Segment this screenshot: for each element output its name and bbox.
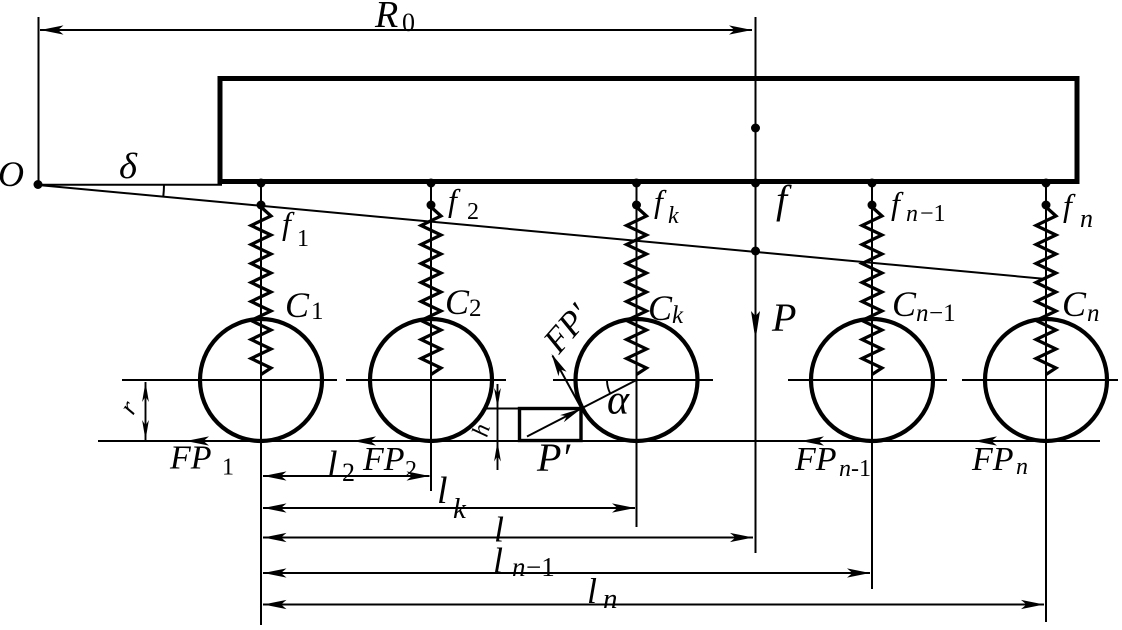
dimension ln-1 right arrowhead xyxy=(847,568,870,577)
block P prime xyxy=(520,409,582,441)
dimension l2 right arrowhead xyxy=(407,471,430,480)
svg-text:FP: FP xyxy=(971,441,1014,478)
dimension lk line xyxy=(263,507,635,509)
arrow FPn xyxy=(974,436,997,445)
spring Cn xyxy=(1036,207,1056,375)
svg-text:C: C xyxy=(1062,284,1087,324)
lower dot spring 1 xyxy=(257,201,266,210)
svg-text:−1: −1 xyxy=(929,300,956,327)
svg-text:l: l xyxy=(327,444,338,486)
beam rectangle xyxy=(220,79,1077,182)
spring Cn1 xyxy=(862,207,882,375)
force P line xyxy=(755,17,757,553)
block top extension line xyxy=(486,408,520,410)
svg-text:2: 2 xyxy=(469,295,482,322)
dot on P line at beam xyxy=(751,179,760,188)
dimension l line xyxy=(263,537,753,539)
dimension ln line xyxy=(263,604,1044,606)
roller circle C2 xyxy=(370,319,492,441)
spring C1 xyxy=(251,207,271,375)
dimension lk right arrowhead xyxy=(612,503,635,512)
spring Ck xyxy=(627,207,647,375)
beam dot spring 1 xyxy=(257,179,266,188)
roller circle Cn1 xyxy=(811,319,933,441)
svg-text:l: l xyxy=(437,470,448,512)
dimension h line xyxy=(497,384,499,470)
beam dot spring 2 xyxy=(427,179,436,188)
dimension r up arrowhead xyxy=(142,382,149,402)
svg-text:P′: P′ xyxy=(536,435,571,480)
svg-text:1: 1 xyxy=(222,455,234,481)
roller centre line xyxy=(553,379,713,381)
lower dot spring 2 xyxy=(427,201,436,210)
svg-text:C: C xyxy=(445,282,470,322)
svg-text:k: k xyxy=(453,493,467,525)
svg-text:C: C xyxy=(892,284,917,324)
contact normal line xyxy=(527,380,637,437)
svg-text:0: 0 xyxy=(402,8,415,37)
svg-text:−1: −1 xyxy=(526,552,555,582)
angle alpha arc xyxy=(607,380,610,393)
svg-text:1: 1 xyxy=(297,226,309,252)
beam dot spring n xyxy=(1042,179,1051,188)
node O extension line xyxy=(38,17,40,184)
svg-text:1: 1 xyxy=(311,298,324,325)
svg-text:n: n xyxy=(1080,204,1093,233)
svg-text:n: n xyxy=(1087,300,1100,327)
svg-text:δ: δ xyxy=(119,146,138,186)
svg-text:l: l xyxy=(493,541,503,581)
roller centre line xyxy=(788,379,947,381)
svg-text:n: n xyxy=(839,456,851,482)
force FP prime line xyxy=(553,356,582,409)
dimension r down arrowhead xyxy=(142,420,149,440)
svg-text:−1: −1 xyxy=(920,201,946,227)
force P arrowhead xyxy=(751,311,760,340)
dot on P line upper xyxy=(751,124,760,133)
arrow FP2 xyxy=(353,436,376,445)
arrow FP1 xyxy=(186,436,209,445)
hanger line spring 1 xyxy=(260,183,262,625)
svg-text:n: n xyxy=(1016,454,1028,480)
svg-text:FP: FP xyxy=(169,440,212,477)
svg-text:α: α xyxy=(607,378,630,424)
beam dot spring k xyxy=(632,179,641,188)
dimension ln left arrowhead xyxy=(264,600,287,609)
svg-text:O: O xyxy=(0,154,24,194)
svg-text:n: n xyxy=(512,552,526,582)
svg-text:C: C xyxy=(285,285,310,325)
dot on P line at deflection xyxy=(751,247,760,256)
svg-text:FP: FP xyxy=(362,441,405,478)
angle delta arc xyxy=(162,185,165,197)
svg-text:R: R xyxy=(374,0,398,36)
node O dot xyxy=(34,180,43,189)
force FP prime arrowhead xyxy=(552,354,567,376)
svg-text:2: 2 xyxy=(342,458,355,487)
svg-text:FP: FP xyxy=(794,441,837,478)
dimension R0 left arrowhead xyxy=(41,25,64,34)
roller circle Ck xyxy=(576,319,698,441)
roller centre line xyxy=(346,379,506,381)
dimension R0 right arrowhead xyxy=(729,25,752,34)
roller circle Cn xyxy=(985,319,1107,441)
dimension l2 left arrowhead xyxy=(264,471,287,480)
dimension r line xyxy=(145,382,147,440)
dimension h up arrowhead xyxy=(494,442,501,462)
spring C2 xyxy=(421,207,441,375)
svg-text:2: 2 xyxy=(467,199,479,225)
hanger line spring 2 xyxy=(430,183,432,491)
svg-text:P: P xyxy=(771,295,796,340)
svg-text:n: n xyxy=(603,583,618,615)
roller centre line xyxy=(962,379,1118,381)
dimension l2 line xyxy=(263,475,430,477)
dimension l right arrowhead xyxy=(730,533,753,542)
dimension ln-1 left arrowhead xyxy=(264,568,287,577)
svg-text:l: l xyxy=(587,571,597,611)
deflection line delta xyxy=(38,185,1046,279)
dimension l left arrowhead xyxy=(264,533,287,542)
lower dot spring n xyxy=(1042,201,1051,210)
svg-text:n: n xyxy=(916,300,929,327)
arrow FPn-1 xyxy=(801,436,824,445)
hanger line spring n xyxy=(1045,183,1047,622)
roller centre line xyxy=(122,379,337,381)
svg-text:C: C xyxy=(648,288,673,328)
dimension ln-1 line xyxy=(263,572,870,574)
svg-text:-1: -1 xyxy=(851,456,871,482)
lower dot spring k xyxy=(632,201,641,210)
svg-text:k: k xyxy=(672,302,684,329)
ground line xyxy=(98,440,1100,442)
beam dot spring n1 xyxy=(868,179,877,188)
hanger line spring n1 xyxy=(871,183,873,589)
baseline from O to beam xyxy=(38,184,222,186)
svg-text:k: k xyxy=(668,203,679,229)
roller circle C1 xyxy=(200,319,322,441)
dimension R0 line xyxy=(40,29,752,31)
lower dot spring n1 xyxy=(868,201,877,210)
contact arrowhead xyxy=(560,409,581,423)
dimension h down arrowhead xyxy=(494,388,501,408)
hanger line spring k xyxy=(636,183,638,527)
dimension ln right arrowhead xyxy=(1021,600,1044,609)
svg-text:n: n xyxy=(906,201,918,227)
dimension lk left arrowhead xyxy=(264,503,287,512)
